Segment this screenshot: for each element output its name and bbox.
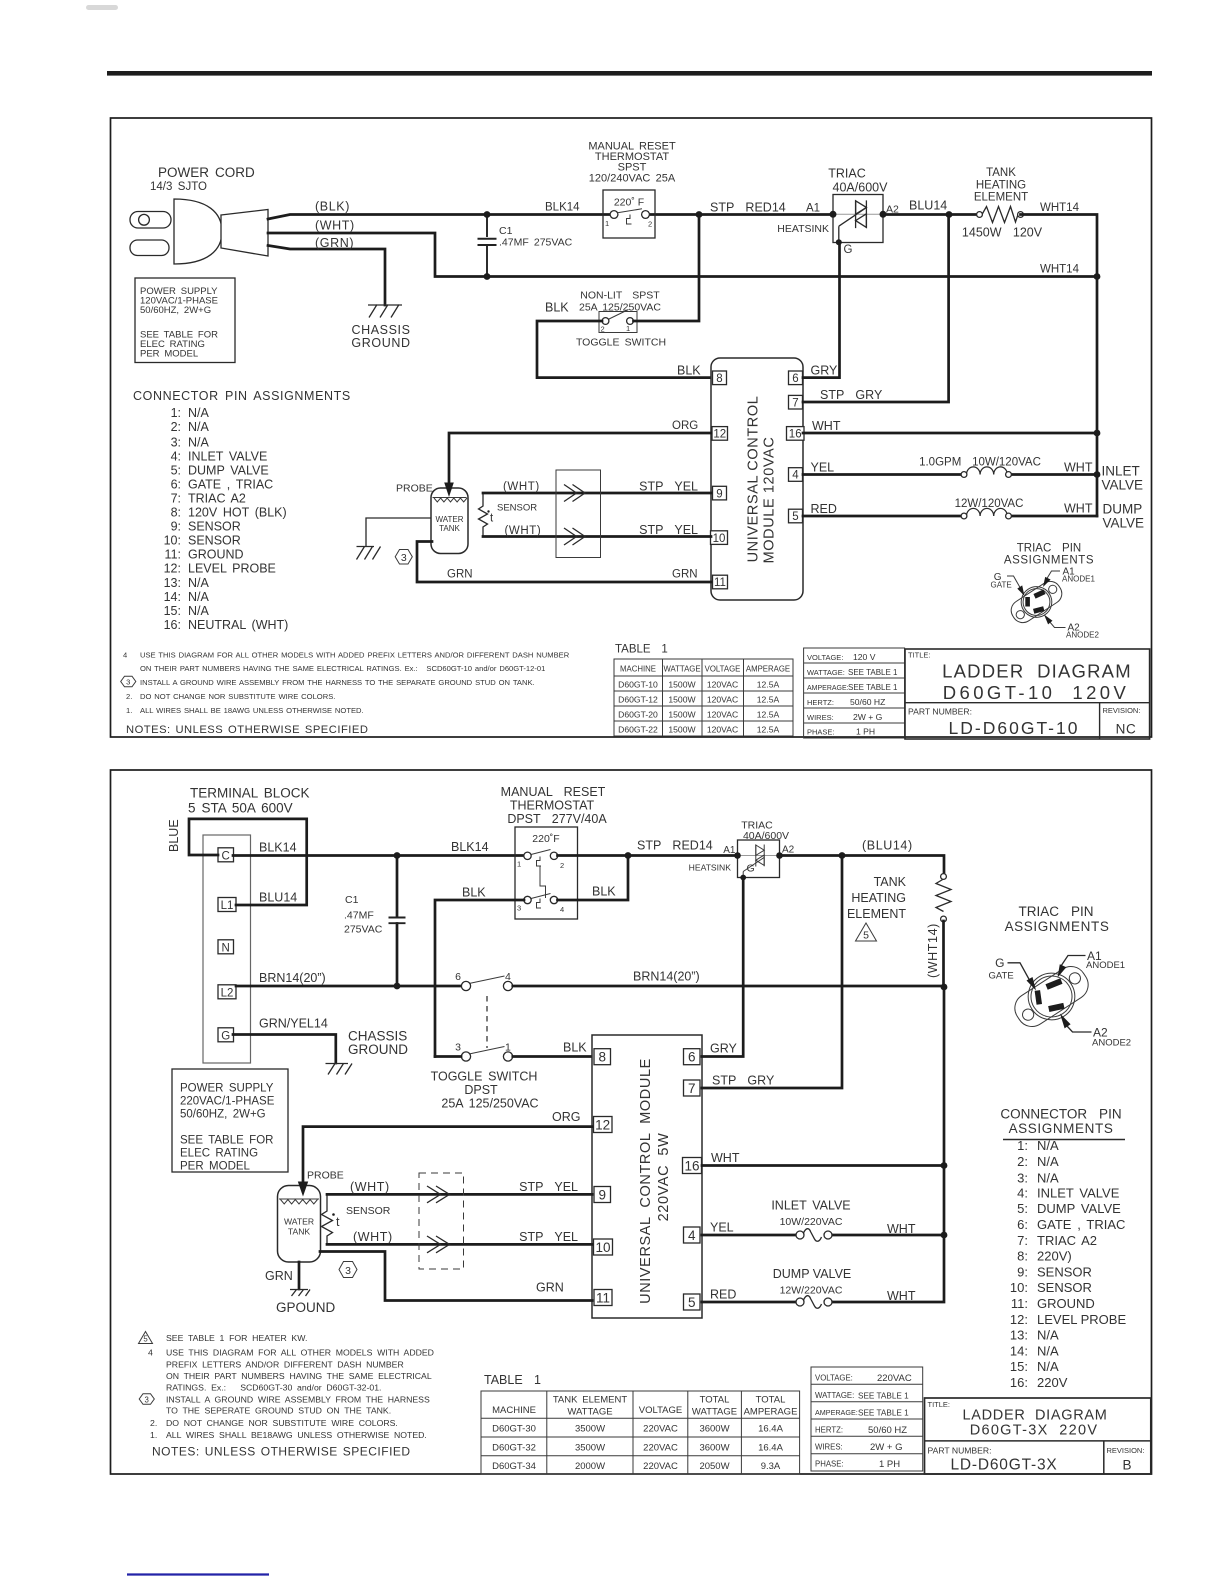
- svg-text:B: B: [1122, 1458, 1131, 1473]
- svg-text:120 V: 120 V: [853, 652, 876, 662]
- twisted pair box with chevrons (top): [556, 470, 601, 558]
- svg-text:(WHT): (WHT): [315, 219, 355, 233]
- svg-text:STP RED14: STP RED14: [710, 201, 786, 215]
- svg-text:LADDER DIAGRAM: LADDER DIAGRAM: [942, 661, 1132, 682]
- svg-text:12.5A: 12.5A: [757, 695, 780, 705]
- svg-text:2.: 2.: [150, 1418, 157, 1428]
- svg-text:1: 1: [626, 324, 630, 333]
- svg-text:40A/600V: 40A/600V: [833, 181, 889, 195]
- svg-text:BLK: BLK: [545, 301, 569, 315]
- svg-text:9:: 9:: [171, 520, 181, 534]
- svg-text:AMPERAGE: AMPERAGE: [746, 665, 790, 674]
- svg-text:G: G: [844, 244, 853, 256]
- svg-text:N: N: [222, 942, 230, 954]
- top sheet border frame: [111, 118, 1152, 737]
- temperature sensor RT1 (bottom): [322, 1194, 391, 1244]
- note triangle 5: [856, 923, 877, 942]
- svg-text:SENSOR: SENSOR: [188, 534, 241, 548]
- svg-text:3: 3: [345, 1265, 351, 1277]
- svg-text:(WHT14): (WHT14): [926, 923, 940, 978]
- svg-text:TANK ELEMENT: TANK ELEMENT: [553, 1395, 628, 1406]
- svg-text:2: 2: [648, 220, 652, 229]
- svg-text:TITLE:: TITLE:: [928, 1400, 951, 1409]
- svg-text:D60GT-32: D60GT-32: [492, 1443, 536, 1454]
- svg-text:11: 11: [596, 1291, 610, 1306]
- svg-text:15:: 15:: [164, 604, 181, 618]
- svg-text:220VAC 5W: 220VAC 5W: [656, 1133, 672, 1222]
- svg-text:LEVEL PROBE: LEVEL PROBE: [188, 562, 276, 576]
- svg-text:A1: A1: [806, 203, 820, 215]
- svg-text:1:: 1:: [1017, 1138, 1028, 1153]
- svg-text:GATE , TRIAC: GATE , TRIAC: [1037, 1217, 1125, 1232]
- svg-text:RED: RED: [811, 502, 837, 516]
- svg-text:SEE TABLE 1: SEE TABLE 1: [858, 1409, 909, 1418]
- universal control module U1 (top): [711, 358, 803, 600]
- svg-text:ANODE2: ANODE2: [1066, 631, 1099, 640]
- wire BLK switch pole B to module pin 8: [435, 1041, 592, 1057]
- svg-text:WHT: WHT: [812, 419, 841, 433]
- svg-text:50/60 HZ: 50/60 HZ: [868, 1425, 907, 1436]
- svg-text:MODULE 120VAC: MODULE 120VAC: [762, 437, 778, 564]
- svg-text:TO THE SEPERATE GROUND STUD ON: TO THE SEPERATE GROUND STUD ON THE TANK.: [166, 1406, 391, 1416]
- svg-text:WHT: WHT: [1064, 461, 1093, 475]
- svg-text:BRN14(20”): BRN14(20”): [259, 971, 326, 985]
- svg-text:1500W: 1500W: [668, 725, 696, 735]
- triac Q1 40A/600V (top): [777, 167, 899, 257]
- svg-text:GRN: GRN: [265, 1269, 293, 1283]
- twisted pair dashed box with chevrons (bottom): [419, 1173, 464, 1269]
- wire BLUE jumper loop C to L1: [167, 819, 307, 905]
- svg-text:NON-LIT SPST: NON-LIT SPST: [580, 290, 660, 302]
- wire GRY gate pin6 to triac G: [803, 244, 840, 378]
- svg-text:INLET VALVE: INLET VALVE: [188, 449, 267, 463]
- svg-text:2W + G: 2W + G: [870, 1442, 902, 1453]
- svg-text:16:: 16:: [1010, 1375, 1028, 1390]
- svg-text:PROBE: PROBE: [307, 1170, 344, 1182]
- triac package drawing TO-3 (bottom): [989, 949, 1132, 1049]
- svg-text:GROUND: GROUND: [351, 336, 410, 350]
- svg-text:PER MODEL: PER MODEL: [140, 349, 198, 360]
- svg-text:50/60HZ, 2W+G: 50/60HZ, 2W+G: [140, 305, 211, 316]
- note hexagon 3 (top schematic): [395, 550, 412, 565]
- svg-text:N/A: N/A: [1037, 1343, 1059, 1358]
- svg-text:ASSIGNMENTS: ASSIGNMENTS: [1004, 555, 1094, 567]
- wire STP GRY pin7 to A2 node: [803, 215, 949, 402]
- svg-text:2050W: 2050W: [699, 1461, 729, 1472]
- label triac pin assignments (top): [1004, 543, 1094, 567]
- svg-text:ANODE1: ANODE1: [1086, 960, 1125, 971]
- power supply note box (bottom): [172, 1069, 288, 1173]
- terminal N: [218, 940, 234, 955]
- svg-text:REVISION:: REVISION:: [1103, 706, 1141, 715]
- svg-text:USE THIS DIAGRAM FOR ALL OTHER: USE THIS DIAGRAM FOR ALL OTHER MODELS WI…: [166, 1348, 434, 1358]
- svg-text:PHASE:: PHASE:: [807, 727, 835, 736]
- svg-text:STP GRY: STP GRY: [820, 388, 883, 402]
- label non-lit toggle switch (top): [576, 290, 666, 349]
- triac package drawing TO-3 (top): [991, 567, 1100, 640]
- svg-text:220VAC: 220VAC: [643, 1443, 678, 1454]
- svg-text:6: 6: [688, 1050, 696, 1065]
- svg-text:15:: 15:: [1010, 1359, 1028, 1374]
- wire GRN tank to pin 11: [417, 542, 711, 583]
- svg-text:YEL: YEL: [811, 461, 835, 475]
- svg-text:12:: 12:: [164, 562, 181, 576]
- wire GRN from plug: [268, 236, 385, 305]
- svg-text:SEE TABLE 1: SEE TABLE 1: [848, 683, 898, 692]
- svg-text:4: 4: [792, 470, 799, 482]
- svg-text:TERMINAL BLOCK: TERMINAL BLOCK: [190, 786, 309, 801]
- thermostat DPST switch (bottom): [515, 827, 578, 919]
- svg-text:ALL WIRES SHALL BE18AWG UNLESS: ALL WIRES SHALL BE18AWG UNLESS OTHERWISE…: [166, 1430, 427, 1440]
- svg-text:ORG: ORG: [672, 420, 698, 432]
- notes (bottom sheet): [148, 1333, 434, 1440]
- dump valve coil L2 (top): [803, 498, 1144, 531]
- svg-text:WIRES:: WIRES:: [815, 1443, 843, 1452]
- svg-text:N/A: N/A: [188, 604, 210, 618]
- svg-text:INLET VALVE: INLET VALVE: [771, 1199, 850, 1213]
- svg-text:9:: 9:: [1017, 1264, 1028, 1279]
- svg-text:GRN: GRN: [447, 569, 473, 581]
- svg-text:1: 1: [505, 1042, 511, 1054]
- terminal G: [218, 1028, 234, 1043]
- svg-text:8: 8: [598, 1050, 606, 1065]
- svg-text:5: 5: [688, 1295, 696, 1310]
- svg-text:6:: 6:: [171, 477, 181, 491]
- svg-text:GROUND: GROUND: [188, 548, 244, 562]
- svg-text:TRIAC PIN: TRIAC PIN: [1019, 904, 1094, 919]
- module pin 4 (bottom): [684, 1227, 701, 1243]
- power supply note box (top): [135, 278, 235, 363]
- svg-text:TANK: TANK: [874, 875, 907, 889]
- svg-text:STP RED14: STP RED14: [637, 839, 713, 853]
- module pin 16 (bottom): [683, 1158, 702, 1174]
- triac Q1 40A/600V (bottom): [689, 820, 795, 881]
- water tank (top): [431, 488, 468, 554]
- svg-text:16: 16: [789, 429, 802, 441]
- module pin 11 (bottom): [594, 1290, 612, 1306]
- svg-text:10: 10: [595, 1240, 610, 1255]
- svg-text:G: G: [221, 1030, 230, 1042]
- capacitor C1 (bottom): [344, 856, 406, 987]
- svg-text:6:: 6:: [1017, 1217, 1028, 1232]
- title block (bottom): [925, 1398, 1151, 1474]
- svg-text:(BLK): (BLK): [315, 200, 350, 214]
- svg-text:N/A: N/A: [188, 576, 210, 590]
- svg-text:9: 9: [598, 1188, 606, 1203]
- svg-text:VOLTAGE: VOLTAGE: [639, 1405, 682, 1416]
- toggle switch S1 SPST (top): [599, 310, 637, 334]
- wire ORG pin12 to probe (bottom): [298, 1110, 592, 1197]
- svg-text:PER MODEL: PER MODEL: [180, 1161, 251, 1173]
- svg-text:220V: 220V: [1037, 1375, 1068, 1390]
- svg-text:TOTAL: TOTAL: [700, 1395, 730, 1406]
- svg-text:1: 1: [517, 860, 521, 869]
- svg-text:9.3A: 9.3A: [761, 1461, 781, 1472]
- svg-text:GPOUND: GPOUND: [276, 1300, 336, 1315]
- wire WHT14 to right rail: [1021, 202, 1101, 516]
- svg-text:PREFIX LETTERS AND/OR DIFFEREN: PREFIX LETTERS AND/OR DIFFERENT DASH NUM…: [166, 1360, 404, 1370]
- svg-text:14:: 14:: [1010, 1343, 1028, 1358]
- temperature sensor RT1 (top): [479, 493, 538, 537]
- svg-text:TRIAC PIN: TRIAC PIN: [1017, 543, 1081, 555]
- svg-text:PHASE:: PHASE:: [815, 1460, 844, 1469]
- svg-text:RED: RED: [710, 1288, 736, 1302]
- svg-text:25A 125/250VAC: 25A 125/250VAC: [441, 1097, 538, 1111]
- svg-text:STP YEL: STP YEL: [519, 1180, 578, 1194]
- svg-text:1: 1: [605, 219, 609, 228]
- svg-text:VOLTAGE:: VOLTAGE:: [807, 653, 843, 662]
- connector pin list (bottom): [1010, 1138, 1127, 1390]
- svg-text:3: 3: [517, 904, 521, 913]
- svg-text:3500W: 3500W: [575, 1424, 605, 1435]
- electrical rating table (top): [804, 648, 905, 738]
- svg-text:4:: 4:: [1017, 1185, 1028, 1200]
- svg-text:16.4A: 16.4A: [758, 1424, 783, 1435]
- wire GRY pin6 to triac G (bottom): [702, 879, 743, 1057]
- svg-text:220VAC: 220VAC: [643, 1461, 678, 1472]
- svg-text:A1: A1: [723, 845, 736, 856]
- module pin 6: [789, 371, 803, 385]
- module pin 12: [712, 427, 728, 441]
- svg-text:BLK: BLK: [462, 886, 486, 900]
- svg-text:12: 12: [595, 1118, 610, 1133]
- svg-text:NC: NC: [1116, 722, 1137, 737]
- svg-text:10W/220VAC: 10W/220VAC: [780, 1216, 843, 1228]
- wire BLK second pole out to A1 node: [558, 858, 629, 900]
- svg-text:9: 9: [716, 488, 722, 500]
- svg-text:3600W: 3600W: [699, 1443, 729, 1454]
- scan artifact mark: [86, 5, 118, 10]
- svg-text:C1: C1: [499, 225, 513, 237]
- wire BLK14 from terminal C: [233, 840, 524, 859]
- wire GRN/YEL14 from G: [233, 1017, 336, 1064]
- wire ORG pin12 to level probe: [444, 420, 711, 497]
- svg-text:VOLTAGE:: VOLTAGE:: [815, 1374, 853, 1383]
- svg-text:TABLE 1: TABLE 1: [615, 644, 668, 656]
- svg-text:SEE TABLE 1: SEE TABLE 1: [858, 1391, 909, 1400]
- svg-text:BLUE: BLUE: [167, 819, 181, 852]
- svg-text:LEVEL PROBE: LEVEL PROBE: [1037, 1312, 1126, 1327]
- svg-text:WHT14: WHT14: [1040, 264, 1080, 276]
- note triangle 5 (bottom notes): [139, 1332, 153, 1344]
- svg-text:VALVE: VALVE: [1102, 478, 1144, 493]
- module pin 5: [789, 509, 803, 523]
- svg-text:SENSOR: SENSOR: [1037, 1280, 1092, 1295]
- svg-text:BLK14: BLK14: [259, 841, 297, 855]
- wire WHT14 element to BRN rail: [941, 921, 948, 990]
- svg-text:2:: 2:: [1017, 1154, 1028, 1169]
- svg-text:ASSIGNMENTS: ASSIGNMENTS: [1009, 1121, 1114, 1136]
- svg-text:REVISION:: REVISION:: [1107, 1446, 1145, 1455]
- svg-text:CONNECTOR PIN: CONNECTOR PIN: [1000, 1107, 1121, 1122]
- connector pin list (top): [164, 406, 289, 632]
- svg-text:DO NOT CHANGE NOR SUBSTITUTE W: DO NOT CHANGE NOR SUBSTITUTE WIRE COLORS…: [140, 692, 335, 701]
- module pin 10 (bottom): [594, 1239, 613, 1255]
- svg-text:3500W: 3500W: [575, 1443, 605, 1454]
- svg-text:1:: 1:: [171, 406, 181, 420]
- svg-text:WATTAGE: WATTAGE: [692, 1407, 737, 1418]
- svg-text:BLU14: BLU14: [909, 199, 947, 213]
- svg-text:SEE TABLE FOR: SEE TABLE FOR: [180, 1135, 273, 1147]
- svg-text:VOLTAGE: VOLTAGE: [705, 665, 741, 674]
- svg-text:N/A: N/A: [188, 436, 210, 450]
- svg-text:10:: 10:: [1010, 1280, 1028, 1295]
- svg-text:BLK: BLK: [563, 1041, 587, 1055]
- svg-text:ON THEIR PART NUMBERS HAVING T: ON THEIR PART NUMBERS HAVING THE SAME EL…: [140, 664, 545, 673]
- label terminal block: [188, 786, 309, 816]
- svg-text:11:: 11:: [1011, 1296, 1028, 1311]
- wire STP RED14 thermostat to triac A1: [558, 839, 738, 859]
- wire WHT sensor to pin 10 (bottom): [327, 1230, 592, 1244]
- svg-text:3:: 3:: [1017, 1171, 1028, 1186]
- svg-text:N/A: N/A: [188, 420, 210, 434]
- svg-text:1500W: 1500W: [668, 710, 696, 720]
- svg-text:3:: 3:: [171, 436, 181, 450]
- note hexagon 3 (top notes): [121, 676, 136, 687]
- water tank (bottom): [278, 1186, 321, 1263]
- svg-text:CHASSIS: CHASSIS: [351, 323, 410, 337]
- svg-text:ON THEIR PART NUMBERS HAVING T: ON THEIR PART NUMBERS HAVING THE SAME EL…: [166, 1371, 432, 1381]
- chassis ground symbol (bottom): [326, 1029, 409, 1075]
- svg-text:3: 3: [455, 1042, 461, 1054]
- svg-text:4: 4: [148, 1348, 153, 1358]
- module pin 4: [789, 468, 803, 482]
- svg-text:1500W: 1500W: [668, 695, 696, 705]
- svg-text:BLU14: BLU14: [259, 891, 297, 905]
- svg-text:GRN/YEL14: GRN/YEL14: [259, 1017, 328, 1031]
- svg-text:220˚F: 220˚F: [532, 833, 559, 845]
- svg-text:INSTALL A GROUND WIRE ASSEMBLY: INSTALL A GROUND WIRE ASSEMBLY FROM THE …: [166, 1395, 430, 1405]
- wire GRN tank bottom to ground: [265, 1262, 299, 1289]
- svg-text:5:: 5:: [1017, 1201, 1028, 1216]
- svg-text:3: 3: [126, 678, 130, 687]
- terminal C: [218, 848, 234, 863]
- module pin 11: [713, 575, 728, 589]
- svg-text:N/A: N/A: [188, 406, 210, 420]
- svg-text:2: 2: [601, 325, 605, 334]
- svg-text:5: 5: [863, 930, 869, 942]
- svg-text:D60GT-30: D60GT-30: [492, 1424, 536, 1435]
- svg-text:GRN: GRN: [536, 1281, 564, 1295]
- svg-text:A2: A2: [782, 845, 795, 856]
- svg-text:UNIVERSAL CONTROL MODULE: UNIVERSAL CONTROL MODULE: [638, 1058, 654, 1304]
- svg-text:AMPERAGE:: AMPERAGE:: [815, 1408, 858, 1417]
- svg-text:C: C: [222, 850, 230, 862]
- svg-text:PART NUMBER:: PART NUMBER:: [928, 1446, 992, 1456]
- svg-text:t: t: [490, 513, 494, 525]
- toggle switch S1 DPST (bottom): [431, 971, 539, 1111]
- svg-text:.47MF: .47MF: [344, 910, 374, 922]
- svg-text:12.5A: 12.5A: [757, 725, 780, 735]
- wire BLK toggle feed: [545, 215, 699, 322]
- module pin 7: [789, 395, 803, 409]
- svg-text:WATTAGE:: WATTAGE:: [807, 668, 845, 677]
- svg-text:WATTAGE:: WATTAGE:: [815, 1391, 854, 1400]
- svg-text:GATE: GATE: [989, 971, 1014, 982]
- svg-text:PROBE: PROBE: [396, 483, 433, 495]
- svg-text:BLK: BLK: [592, 885, 616, 899]
- svg-text:CONNECTOR PIN ASSIGNMENTS: CONNECTOR PIN ASSIGNMENTS: [133, 389, 351, 403]
- svg-text:MACHINE: MACHINE: [620, 665, 656, 674]
- svg-text:ALL WIRES SHALL BE 18AWG UNLES: ALL WIRES SHALL BE 18AWG UNLESS OTHERWIS…: [140, 706, 364, 715]
- svg-text:2:: 2:: [171, 420, 181, 434]
- svg-text:4:: 4:: [171, 449, 181, 463]
- svg-text:NOTES: UNLESS OTHERWISE SPECIF: NOTES: UNLESS OTHERWISE SPECIFIED: [126, 724, 368, 736]
- svg-text:(WHT): (WHT): [353, 1230, 393, 1244]
- svg-text:DPST 277V/40A: DPST 277V/40A: [507, 812, 607, 826]
- footer blue link rule: [127, 1573, 269, 1575]
- svg-text:16:: 16:: [164, 618, 181, 632]
- module pin 6 (bottom): [684, 1049, 701, 1065]
- svg-text:STP YEL: STP YEL: [639, 480, 698, 494]
- svg-text:USE THIS DIAGRAM FOR ALL OTHER: USE THIS DIAGRAM FOR ALL OTHER MODELS WI…: [140, 651, 570, 660]
- svg-text:WHT: WHT: [887, 1222, 916, 1236]
- svg-text:WATTAGE: WATTAGE: [663, 665, 700, 674]
- svg-text:13:: 13:: [1010, 1328, 1028, 1343]
- svg-text:50/60 HZ: 50/60 HZ: [850, 697, 885, 707]
- wire WHT sensor to pin 10: [483, 525, 711, 537]
- svg-text:8: 8: [716, 373, 722, 385]
- svg-text:ELEMENT: ELEMENT: [974, 192, 1028, 204]
- svg-text:TOGGLE SWITCH: TOGGLE SWITCH: [576, 337, 666, 349]
- ground symbol (tank stud, top): [357, 547, 381, 560]
- svg-text:GROUND: GROUND: [1037, 1296, 1095, 1311]
- wire STP RED14 node: [696, 201, 786, 218]
- ground stud wire from tank: [366, 518, 431, 546]
- svg-text:12: 12: [713, 429, 726, 441]
- svg-text:16.4A: 16.4A: [758, 1443, 783, 1454]
- svg-text:L2: L2: [221, 987, 234, 999]
- svg-text:N/A: N/A: [1037, 1154, 1059, 1169]
- svg-text:ANODE2: ANODE2: [1092, 1038, 1131, 1049]
- svg-text:10:: 10:: [164, 534, 181, 548]
- svg-text:GATE , TRIAC: GATE , TRIAC: [188, 477, 273, 491]
- svg-text:SEE TABLE 1 FOR HEATER KW.: SEE TABLE 1 FOR HEATER KW.: [166, 1333, 307, 1343]
- svg-text:SENSOR: SENSOR: [346, 1205, 391, 1217]
- wire WHT sensor to pin 9 (bottom): [327, 1180, 592, 1194]
- wire (BLU14) A2 to heating element: [780, 839, 945, 875]
- svg-text:D60GT-20: D60GT-20: [618, 710, 658, 720]
- module pin 9: [713, 486, 727, 500]
- svg-text:13:: 13:: [164, 576, 181, 590]
- terminal block TB1 body: [203, 835, 251, 1063]
- svg-text:G: G: [995, 956, 1004, 970]
- svg-text:HEATING: HEATING: [851, 891, 906, 905]
- svg-text:SENSOR: SENSOR: [188, 520, 241, 534]
- inlet valve coil L1 (top): [803, 457, 1143, 493]
- svg-text:STP YEL: STP YEL: [519, 1230, 578, 1244]
- svg-text:MACHINE: MACHINE: [492, 1405, 536, 1416]
- svg-text:HEATSINK: HEATSINK: [777, 223, 829, 235]
- svg-text:50/60HZ, 2W+G: 50/60HZ, 2W+G: [180, 1109, 266, 1121]
- svg-text:3: 3: [401, 552, 407, 564]
- svg-text:120VAC: 120VAC: [707, 680, 738, 690]
- svg-text:POWER SUPPLY: POWER SUPPLY: [180, 1083, 274, 1095]
- inlet valve (bottom): [702, 1199, 947, 1242]
- svg-text:(GRN): (GRN): [315, 236, 354, 250]
- svg-text:D60GT-10 120V: D60GT-10 120V: [943, 682, 1129, 703]
- svg-text:D60GT-34: D60GT-34: [492, 1461, 536, 1472]
- svg-text:220VAC/1-PHASE: 220VAC/1-PHASE: [180, 1096, 275, 1108]
- svg-text:t: t: [336, 1215, 340, 1229]
- label manual reset thermostat (top): [588, 141, 676, 185]
- svg-text:MANUAL RESET: MANUAL RESET: [501, 785, 606, 799]
- svg-text:ANODE1: ANODE1: [1062, 575, 1095, 584]
- module pin 8: [713, 371, 727, 385]
- svg-text:INLET VALVE: INLET VALVE: [1037, 1185, 1120, 1200]
- svg-text:WHT: WHT: [1064, 502, 1093, 516]
- svg-text:14:: 14:: [164, 590, 181, 604]
